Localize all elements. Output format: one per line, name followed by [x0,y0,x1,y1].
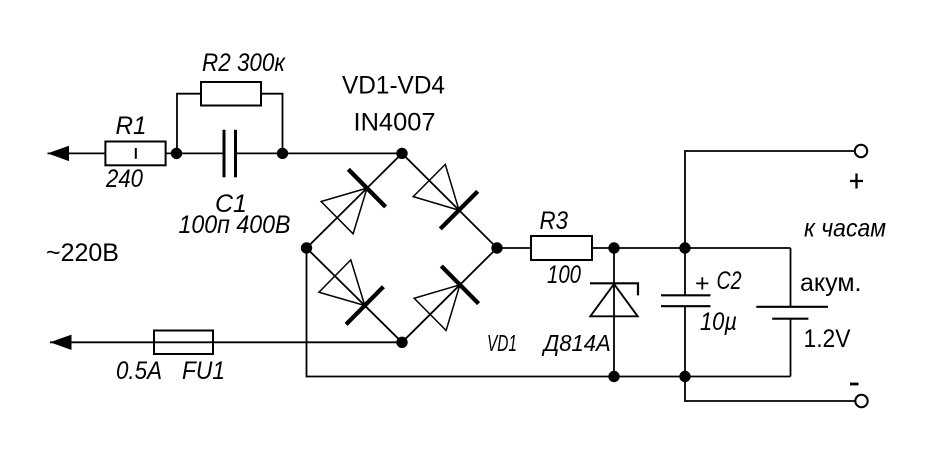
wire R2 branch left riser [177,94,201,154]
resistor R3 [531,236,592,260]
svg-text:100п 400В: 100п 400В [179,211,291,239]
diode bridge bottom-left (VD1-VD4) [319,260,384,325]
svg-text:100: 100 [547,261,581,289]
svg-text:FU1: FU1 [182,357,225,385]
wire R2 branch right riser [261,94,283,154]
arrow mains bottom [50,335,72,350]
wire zener lead [613,248,615,377]
svg-text:~220В: ~220В [46,239,119,267]
wire bridge edge bottom-left [307,248,403,342]
svg-text:+: + [695,270,710,298]
svg-text:0.5A: 0.5A [116,357,162,385]
wire bridge edge top-right [402,153,497,248]
svg-text:1.2V: 1.2V [804,325,851,353]
terminal output plus [855,145,867,157]
wire bottom AC line [50,341,402,343]
diode bridge top-left (VD1-VD4) [321,169,386,234]
svg-text:R2 300к: R2 300к [202,49,286,77]
svg-text:к часам: к часам [804,215,886,243]
svg-text:VD1: VD1 [487,330,517,356]
diode bridge top-right (VD1-VD4) [413,164,478,229]
wire C2 bottom lead [684,306,686,377]
svg-text:VD1-VD4: VD1-VD4 [342,72,445,100]
resistor R2 [201,82,261,106]
resistor R1 [105,142,165,166]
wire bottom terminal line [685,377,856,402]
battery akum 1.2V [756,307,828,319]
node junction dots [171,148,691,382]
capacitor C1 [224,130,236,178]
label plus [850,174,863,189]
svg-text:240: 240 [105,165,143,193]
wire battery top lead [790,248,792,307]
svg-text:Д814А: Д814А [541,330,611,356]
arrow mains top [48,146,70,161]
wire battery bottom lead [790,319,792,377]
wire top AC line right of C1 [236,152,403,154]
diode bridge bottom-right (VD1-VD4) [414,266,478,331]
wire bridge edge bottom-right [402,248,497,342]
wire C2 top lead [684,248,686,295]
wire positive rail R3 to battery [592,247,791,249]
wire top AC line left of C1 [48,152,225,154]
wire right node to R3 [497,247,531,249]
svg-text:R3: R3 [540,207,569,235]
fuse FU1 [154,331,213,355]
terminal output minus [855,395,867,407]
zener diode VD1 D814A [590,283,638,316]
svg-text:R1: R1 [116,112,147,140]
label minus [850,383,859,386]
capacitor C2 polarized [661,295,711,306]
wire C2 top riser and output plus lead [685,151,855,248]
svg-text:акум.: акум. [800,269,861,297]
svg-text:IN4007: IN4007 [354,109,436,137]
wire negative rail from bridge left node [307,248,791,377]
svg-text:C2: C2 [717,267,742,295]
svg-text:10µ: 10µ [700,308,737,336]
wire bridge edge top-left [307,153,403,248]
